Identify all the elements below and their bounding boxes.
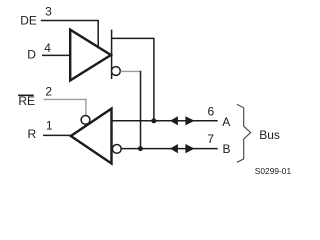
inversion bubble receiver B input: [112, 145, 121, 154]
svg-text:6: 6: [208, 105, 215, 119]
wire driver noninverting output to A: [111, 38, 153, 121]
bidirectional arrowheads on B: [170, 144, 178, 153]
svg-text:3: 3: [45, 5, 52, 19]
svg-text:D: D: [27, 48, 36, 62]
wire driver inverting output to B (gray horizontal): [120, 70, 140, 72]
svg-text:Bus: Bus: [259, 128, 280, 142]
svg-text:2: 2: [45, 85, 52, 99]
bidirectional arrowheads on A: [170, 116, 178, 125]
inversion bubble driver output: [112, 67, 121, 76]
wire bus line A: [111, 120, 217, 122]
wire RE to receiver enable (gray): [44, 99, 86, 116]
svg-text:1: 1: [46, 119, 53, 133]
wire D input: [42, 54, 71, 56]
svg-text:R: R: [28, 127, 37, 141]
svg-text:7: 7: [207, 132, 214, 146]
wire DE to driver enable: [41, 20, 98, 48]
driver output bar: [111, 30, 113, 79]
inversion bubble receiver enable: [81, 116, 90, 125]
driver buffer U1a: [70, 30, 111, 81]
svg-text:B: B: [223, 142, 231, 156]
junction dot A: [151, 118, 156, 123]
svg-text:DE: DE: [20, 14, 37, 28]
svg-text:S0299-01: S0299-01: [255, 166, 292, 176]
svg-text:4: 4: [44, 41, 51, 55]
RE overline: [18, 95, 34, 97]
receiver buffer U1b: [71, 109, 112, 164]
wire bus line B: [121, 148, 217, 150]
bus brace: [237, 104, 251, 162]
wire driver inverting output vertical: [140, 71, 142, 149]
svg-text:A: A: [222, 115, 230, 129]
junction dot B: [138, 146, 143, 151]
wire R output: [43, 134, 71, 136]
